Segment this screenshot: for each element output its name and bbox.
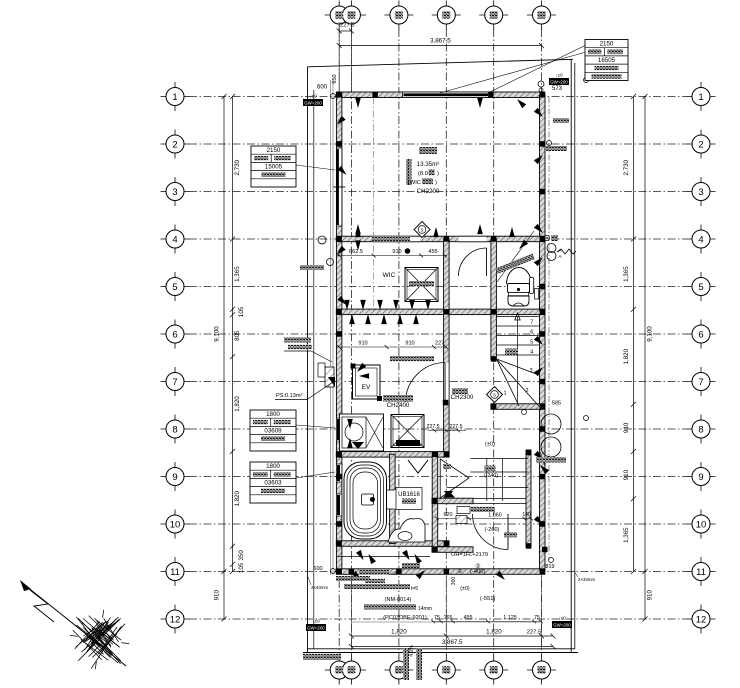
- svg-text:14mm: 14mm: [418, 606, 432, 612]
- svg-text:600: 600: [317, 85, 328, 91]
- svg-text:②: ②: [475, 563, 480, 570]
- svg-text:4: 4: [530, 350, 533, 356]
- svg-text:WIC: WIC: [383, 272, 396, 279]
- svg-text:15005: 15005: [265, 163, 283, 170]
- svg-text:=100: =100: [391, 571, 402, 577]
- svg-text:910: 910: [646, 590, 653, 601]
- svg-text:662.5: 662.5: [349, 249, 363, 255]
- svg-text:↓±0: ↓±0: [309, 94, 317, 99]
- svg-text:2150: 2150: [267, 147, 281, 154]
- svg-text:16505: 16505: [598, 57, 616, 64]
- svg-text:227.5: 227.5: [527, 630, 542, 636]
- svg-text:OH=1FL+2179: OH=1FL+2179: [451, 552, 488, 558]
- svg-text:): ): [437, 171, 439, 177]
- svg-text:↓±0: ↓±0: [312, 619, 320, 624]
- svg-text:UB1616: UB1616: [398, 492, 420, 498]
- svg-text:13.35m²: 13.35m²: [417, 161, 440, 168]
- svg-text:455: 455: [428, 249, 437, 255]
- svg-text:10: 10: [696, 519, 707, 530]
- svg-text:1,365: 1,365: [623, 527, 630, 543]
- svg-text:1800: 1800: [266, 463, 280, 470]
- svg-text:4: 4: [698, 234, 703, 245]
- svg-text:1: 1: [503, 391, 506, 397]
- svg-text:GW=200: GW=200: [550, 79, 568, 84]
- svg-text:1,820: 1,820: [486, 629, 502, 636]
- svg-text:①: ①: [457, 568, 462, 575]
- svg-text:1,125: 1,125: [503, 615, 517, 621]
- svg-text:1: 1: [698, 92, 703, 103]
- svg-text:1,820: 1,820: [234, 490, 241, 506]
- svg-text:1,820: 1,820: [623, 348, 630, 364]
- svg-text:350: 350: [238, 550, 245, 561]
- svg-text:227.: 227.: [435, 341, 446, 347]
- svg-text:2×40mm: 2×40mm: [578, 577, 596, 582]
- svg-text:75: 75: [434, 615, 440, 621]
- svg-text:573: 573: [552, 86, 563, 92]
- svg-text:7: 7: [698, 377, 703, 388]
- svg-text:2: 2: [525, 388, 528, 394]
- svg-text:6: 6: [530, 330, 533, 336]
- svg-text:105: 105: [238, 562, 245, 573]
- svg-text:819: 819: [545, 564, 554, 570]
- svg-text:3: 3: [698, 187, 703, 198]
- svg-text:03609: 03609: [264, 427, 282, 434]
- svg-text:227.5: 227.5: [427, 424, 440, 430]
- svg-text:(-551): (-551): [480, 596, 496, 602]
- svg-text:5: 5: [698, 282, 703, 293]
- svg-text:12: 12: [696, 614, 707, 625]
- svg-text:t=5: t=5: [411, 586, 418, 592]
- svg-text:(±0): (±0): [485, 442, 495, 448]
- svg-text:(-240): (-240): [484, 473, 498, 479]
- svg-text:GW=200: GW=200: [307, 625, 325, 630]
- svg-text:600: 600: [313, 566, 322, 572]
- svg-text:9,100: 9,100: [214, 326, 221, 342]
- svg-text:1,365: 1,365: [623, 266, 630, 282]
- svg-text:11: 11: [170, 567, 180, 578]
- svg-text:CH2300: CH2300: [451, 394, 474, 401]
- svg-text:GW=200: GW=200: [553, 622, 571, 627]
- svg-text:2,730: 2,730: [623, 159, 630, 175]
- svg-text:910: 910: [213, 590, 220, 601]
- svg-text:5: 5: [172, 282, 177, 293]
- svg-text:7: 7: [530, 320, 533, 326]
- svg-text:EV: EV: [362, 384, 371, 391]
- svg-text:910: 910: [623, 469, 630, 480]
- svg-text:GW=200: GW=200: [304, 100, 322, 105]
- svg-text:6: 6: [698, 329, 703, 340]
- svg-text:3,867.5: 3,867.5: [430, 38, 451, 45]
- svg-text:2×40mm: 2×40mm: [311, 585, 329, 590]
- svg-text:3: 3: [172, 187, 177, 198]
- svg-text:2: 2: [172, 139, 177, 150]
- svg-text:9: 9: [172, 472, 177, 483]
- svg-text:1: 1: [172, 92, 177, 103]
- svg-text:805: 805: [234, 330, 241, 341]
- svg-text:1,820: 1,820: [391, 629, 407, 636]
- svg-text:(-260): (-260): [485, 527, 500, 533]
- svg-text:11: 11: [696, 567, 706, 578]
- svg-text:910: 910: [623, 422, 630, 433]
- svg-text:455: 455: [464, 615, 473, 621]
- svg-text:910: 910: [405, 341, 414, 347]
- svg-text:7: 7: [172, 377, 177, 388]
- svg-text:8: 8: [698, 424, 703, 435]
- svg-text:9: 9: [698, 472, 703, 483]
- svg-text:3,867.5: 3,867.5: [442, 639, 463, 646]
- svg-text:4.0%: 4.0%: [409, 645, 415, 657]
- svg-text:↓±0: ↓±0: [558, 616, 566, 621]
- svg-text:9,100: 9,100: [647, 326, 654, 342]
- svg-text:227.5: 227.5: [340, 23, 355, 29]
- svg-text:(NM-8014): (NM-8014): [385, 597, 412, 603]
- svg-text:(PC03DBE-9201): (PC03DBE-9201): [383, 615, 427, 621]
- svg-text:(8.0: (8.0: [418, 171, 428, 177]
- svg-text:650: 650: [332, 74, 338, 83]
- svg-text:(WIC: (WIC: [408, 180, 421, 186]
- svg-text:910: 910: [392, 249, 401, 255]
- svg-text:620: 620: [444, 512, 453, 518]
- svg-text:10: 10: [170, 519, 181, 530]
- svg-text:4: 4: [172, 234, 177, 245]
- svg-text:2,730: 2,730: [234, 159, 241, 175]
- svg-text:1,820: 1,820: [234, 396, 241, 412]
- svg-text:2: 2: [698, 139, 703, 150]
- svg-text:CH2200: CH2200: [417, 188, 440, 195]
- svg-text:75: 75: [534, 615, 540, 621]
- svg-text:910: 910: [358, 341, 367, 347]
- svg-text:S: S: [420, 228, 423, 233]
- svg-text:140: 140: [522, 512, 531, 518]
- svg-text:8: 8: [172, 424, 177, 435]
- svg-text:↓±0: ↓±0: [555, 73, 563, 78]
- svg-text:105: 105: [238, 306, 245, 317]
- svg-text:585: 585: [552, 401, 561, 407]
- svg-text:227.5: 227.5: [450, 424, 463, 430]
- svg-text:PS:0.13m²: PS:0.13m²: [276, 393, 303, 399]
- svg-text:3: 3: [529, 368, 532, 374]
- svg-text:1,060: 1,060: [488, 513, 502, 519]
- svg-text:6: 6: [172, 329, 177, 340]
- svg-text:): ): [435, 180, 437, 186]
- svg-text:1800: 1800: [266, 411, 280, 418]
- svg-text:300: 300: [451, 577, 457, 586]
- svg-text:2150: 2150: [600, 41, 614, 48]
- svg-text:1,365: 1,365: [234, 266, 241, 282]
- svg-text:S: S: [493, 393, 496, 398]
- svg-text:5: 5: [530, 340, 533, 346]
- svg-text:(±0): (±0): [460, 586, 470, 592]
- svg-text:CH2400: CH2400: [387, 402, 410, 409]
- svg-text:12: 12: [170, 614, 181, 625]
- svg-text:03603: 03603: [264, 479, 282, 486]
